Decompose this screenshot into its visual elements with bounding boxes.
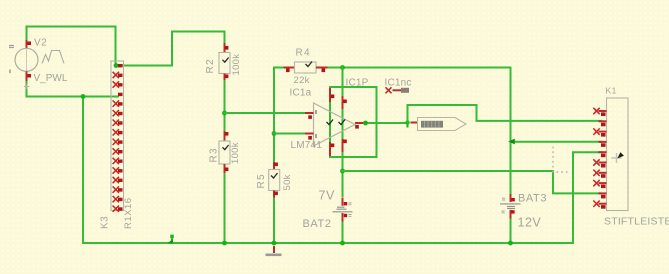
wire R3 bottom to rail [224,172,226,243]
K1 pin leads [599,111,607,204]
mouse cursor [612,152,624,163]
wire ground rail [83,242,573,244]
svg-text:LM741: LM741 [291,140,323,151]
svg-text:R4: R4 [296,48,311,59]
wire x573 vertical to K1 pin5 [573,152,601,243]
svg-text:100k: 100k [230,142,241,164]
resistor R5 [269,162,280,198]
resistor R3 [219,131,230,173]
svg-text:BAT2: BAT2 [303,218,332,230]
svg-text:IC1a: IC1a [290,88,312,99]
wire drop to ground rail [82,97,84,244]
node BAT2 rail junction [340,241,345,246]
node R3 rail junction [222,241,227,246]
svg-text:V_PWL: V_PWL [34,73,68,84]
K1 unconnected X marks [593,108,599,207]
wire V- net to K1 pin9 [343,171,602,193]
wire K3 pin1 to R2 top [116,32,225,66]
svg-text:K3: K3 [100,216,111,229]
svg-text:R2: R2 [205,58,216,73]
svg-text:50k: 50k [282,174,293,190]
wire R4 right to V+ rail [328,68,511,194]
node K3 pin1 junction [114,63,119,68]
voltage source V2 [9,40,64,89]
K3 unconnected X marks [113,72,119,212]
svg-text:R1X16: R1X16 [123,197,134,229]
svg-text:STIFTLEISTE_1X: STIFTLEISTE_1X [604,216,669,228]
node R4 right junction [340,65,345,70]
node stub arrow junction [168,239,173,244]
wire V2 top to K3 pin1 [27,27,116,66]
node inverting junction [272,131,277,136]
svg-text:IC1P: IC1P [346,78,369,89]
node R5 rail junction [272,241,277,246]
wire op-amp output [363,122,408,124]
wire V2 bottom to K3 pin4 [27,80,119,97]
svg-text:100k: 100k [231,54,242,76]
ground [266,246,282,255]
node output net junction [407,119,409,127]
node arrow junction [508,139,515,145]
wire inverting node vertical [274,68,284,164]
wire BAT2 bottom to rail [342,219,344,244]
wire to op-amp +input [225,112,306,114]
resistor R4 [284,62,328,74]
node V2 bottom junction [81,94,86,99]
svg-text:K1: K1 [606,86,617,96]
wire arrow to K1 pin4 [511,141,602,143]
wire stub on rail [171,237,173,244]
svg-text:12V: 12V [518,216,542,230]
wire to op-amp -input [274,133,305,135]
dashed net hint [553,147,568,173]
wire output staircase to K1 pin2 [408,105,602,123]
K3 pin squares [118,64,123,211]
op-amp IC1a [305,88,363,156]
K1 pin squares [601,112,606,208]
connector K3 [111,61,124,212]
svg-text:BAT3: BAT3 [518,193,547,205]
wire R2 bottom to R3 top [224,78,226,132]
battery BAT2 [333,198,353,222]
connector K1 [593,98,628,211]
svg-text:22k: 22k [294,75,310,86]
battery BAT3 [500,194,521,219]
wire R5 bottom to rail [273,196,275,243]
unconnected pin IC1nc [386,87,410,93]
node R2-R3 junction [222,111,227,116]
node V- wire junction [340,169,345,174]
wire IC1P power box [330,87,377,157]
svg-text:R5: R5 [256,173,267,188]
wire power vertical through IC1P [342,68,344,197]
output net flag [411,118,467,131]
node BAT3 rail junction [508,241,513,246]
resistor R2 [219,43,230,80]
svg-text:R3: R3 [209,147,220,162]
svg-text:V2: V2 [34,38,47,49]
wire BAT3 bottom to rail [510,219,512,244]
svg-text:7V: 7V [319,189,335,203]
svg-text:IC1nc: IC1nc [385,78,412,89]
node output pin junction [363,121,368,126]
